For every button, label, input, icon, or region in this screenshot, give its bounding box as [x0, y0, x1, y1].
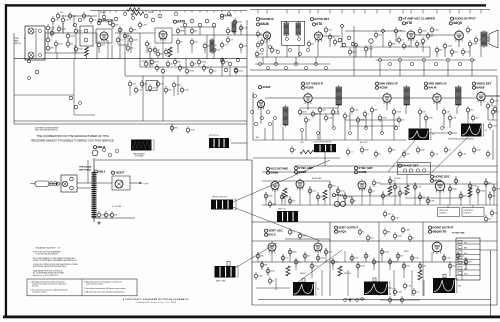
wire: [455, 176, 457, 185]
svg-text:470K: 470K: [428, 118, 433, 120]
wire: [199, 27, 201, 35]
wire: [325, 248, 327, 262]
svg-text:.1: .1: [458, 181, 460, 183]
fine tuning parts: [220, 58, 240, 72]
resistor Rif5: [388, 146, 395, 154]
svg-text:.0033: .0033: [396, 112, 401, 114]
wire: [286, 10, 288, 14]
svg-text:.0047: .0047: [270, 271, 275, 273]
b plus dropping parts: [378, 58, 473, 65]
wire: [162, 39, 164, 59]
waveform photo W2: [461, 124, 487, 137]
wire: [341, 10, 343, 14]
wire: [351, 254, 353, 262]
capacitor Ce20: [234, 67, 243, 75]
svg-text:47: 47: [159, 68, 161, 70]
svg-text:100K: 100K: [397, 292, 402, 294]
svg-text:.0047: .0047: [397, 236, 402, 238]
svg-text:6AU6: 6AU6: [260, 22, 269, 26]
resistor Rvx4: [366, 234, 373, 242]
rf amplifier tube V1: [100, 31, 108, 43]
capacitor Ce11: [145, 40, 151, 48]
svg-text:220: 220: [452, 266, 455, 268]
capacitor C26: [461, 48, 470, 56]
svg-text:.01: .01: [292, 232, 295, 234]
picture tube base rows: [456, 241, 480, 276]
wire: [184, 11, 186, 13]
wire: [371, 112, 373, 140]
alternate tuner line 1: [14, 120, 247, 122]
svg-text:470K: 470K: [61, 29, 66, 31]
tube V10 label 4CB6: [375, 86, 387, 90]
svg-text:3.6: 3.6: [432, 134, 434, 136]
wire if chain 7: [461, 97, 477, 99]
svg-text:47: 47: [272, 281, 274, 283]
wire: [422, 43, 424, 52]
wire: [411, 270, 413, 296]
svg-text:2.2M: 2.2M: [347, 197, 352, 199]
wire: [492, 114, 494, 120]
capacitor Cif8: [430, 150, 439, 158]
svg-text:8.2K: 8.2K: [243, 46, 248, 48]
svg-text:470K: 470K: [238, 71, 243, 73]
if bypass capacitor C41: [378, 114, 387, 122]
sync band capacitor C83: [476, 187, 485, 195]
bottom small parts: [344, 298, 364, 302]
svg-text:6T8: 6T8: [316, 22, 322, 26]
wire: [370, 43, 372, 57]
wire: [422, 10, 424, 14]
wire vert vertical x379: [378, 222, 380, 296]
svg-text:47: 47: [294, 150, 296, 152]
wire: [274, 190, 276, 205]
wire: [51, 30, 53, 36]
wire: [449, 184, 451, 205]
wire if chain 3: [341, 97, 383, 99]
wire: [329, 39, 331, 47]
capacitor Cvb2: [403, 282, 412, 290]
capacitor C6: [68, 12, 77, 20]
wire: [118, 44, 128, 46]
capacitor Cvo1: [490, 97, 499, 105]
svg-text:DC REST: DC REST: [394, 178, 401, 180]
wire: [419, 262, 421, 270]
wire: [213, 11, 215, 13]
svg-text:SER STRING: SER STRING: [79, 169, 92, 171]
svg-text:THE COOPERATION OF THE MANUFAC: THE COOPERATION OF THE MANUFACTURER OF T…: [36, 134, 109, 138]
wire: [317, 192, 319, 205]
wire: [129, 87, 131, 96]
vert band capacitor C106: [372, 258, 380, 266]
if bypass capacitor C39: [363, 110, 369, 118]
wire: [317, 254, 319, 262]
horiz output label: [428, 226, 453, 230]
wire: [234, 11, 236, 13]
vert band capacitor C108: [388, 258, 397, 266]
wire vert horiz y239: [285, 238, 330, 240]
svg-text:WHT: WHT: [464, 274, 467, 276]
resistor Re9: [190, 38, 198, 46]
svg-text:470K: 470K: [268, 196, 273, 198]
resistor Re14: [221, 58, 229, 66]
tuner extra parts: [123, 12, 230, 19]
svg-text:TO PIX: TO PIX: [143, 184, 149, 186]
first video if amplifier V8: [257, 99, 264, 110]
agc keying tube V14: [271, 180, 279, 192]
capacitor Cif2: [346, 148, 353, 156]
wire: [96, 33, 98, 59]
wire: [73, 59, 75, 115]
svg-text:680: 680: [458, 285, 461, 287]
wire: [469, 181, 471, 205]
svg-text:8.2K: 8.2K: [430, 201, 435, 203]
pilot lamp 1: [62, 181, 67, 186]
resistor Rvb1: [393, 288, 402, 296]
wire: [439, 191, 441, 205]
svg-text:© Howard W. Sams & Co., Inc.: © Howard W. Sams & Co., Inc. 1954: [136, 301, 177, 304]
wire: [107, 40, 109, 59]
vert band capacitor C111: [410, 254, 419, 262]
svg-text:BLU: BLU: [464, 253, 467, 255]
svg-text:620: 620: [488, 183, 491, 185]
svg-text:CONTROL: CONTROL: [439, 213, 447, 215]
waveform photo W3: [293, 282, 319, 296]
svg-text:.047: .047: [264, 42, 268, 44]
wire: [145, 11, 147, 13]
svg-text:.01: .01: [170, 64, 173, 66]
capacitor Ce9: [129, 26, 137, 34]
svg-text:▼BALANCED 300Ω INPUT ·· 27 ··: ▼BALANCED 300Ω INPUT ·· 27 ··: [35, 246, 62, 249]
wire: [324, 200, 326, 205]
svg-text:220: 220: [470, 110, 473, 112]
svg-text:.047: .047: [65, 20, 69, 22]
wire: [271, 251, 273, 262]
wire: [480, 102, 482, 106]
wire: [191, 11, 193, 13]
yoke bracket: [235, 198, 237, 200]
svg-text:ORN: ORN: [464, 269, 467, 271]
svg-text:.02: .02: [347, 116, 350, 118]
wire: [332, 258, 334, 270]
svg-text:.1: .1: [425, 41, 427, 43]
wire: [487, 108, 489, 120]
wire: [52, 23, 54, 30]
sync band capacitor C75: [398, 189, 407, 197]
svg-text:.001: .001: [475, 118, 479, 120]
svg-text:4 X 1.5 MEG: 4 X 1.5 MEG: [112, 206, 122, 208]
svg-text:AF AMP AGC CLAMPER: AF AMP AGC CLAMPER: [403, 17, 435, 21]
osc section parts: [144, 14, 162, 22]
svg-text:.005: .005: [397, 187, 401, 189]
wire: [357, 262, 359, 278]
svg-text:HEIGHT: HEIGHT: [300, 273, 306, 275]
svg-text:.0033: .0033: [480, 191, 485, 193]
svg-text:USED IN SOME VERSIONS 13: USED IN SOME VERSIONS 13: [35, 130, 58, 132]
wire: [177, 45, 179, 53]
wire: [399, 62, 401, 76]
mixer-osc tube V2: [159, 30, 167, 42]
svg-text:330: 330: [194, 31, 197, 33]
svg-text:.01: .01: [260, 45, 263, 47]
wire: [213, 27, 215, 59]
svg-text:8.2K: 8.2K: [354, 258, 359, 260]
svg-text:270K: 270K: [472, 44, 477, 46]
svg-text:100K: 100K: [237, 22, 242, 24]
sync band capacitor C78: [426, 197, 435, 205]
capacitor C17: [255, 50, 264, 58]
wire: [231, 142, 247, 144]
resistor Rif11: [472, 146, 481, 154]
resistor Rsd: [415, 40, 424, 48]
sync band capacitor C80: [454, 177, 460, 185]
wire: [458, 10, 460, 14]
svg-text:560K: 560K: [364, 150, 369, 152]
svg-text:6T8: 6T8: [406, 21, 412, 25]
wire: [344, 118, 346, 140]
svg-text:330: 330: [370, 238, 373, 240]
if transformer L5: [336, 85, 342, 107]
resistor Rtb: [212, 46, 221, 54]
wire: [402, 10, 404, 14]
wire: [162, 76, 164, 121]
sync band capacitor C61: [268, 200, 276, 208]
svg-text:.02: .02: [416, 292, 419, 294]
svg-text:100K: 100K: [320, 258, 325, 260]
waveform marker W5: [443, 274, 446, 278]
svg-text:HORIZ HOLD: HORIZ HOLD: [464, 210, 475, 212]
wire: [206, 11, 208, 13]
resistor Rvb3: [400, 296, 404, 304]
mixer-osc box: [80, 26, 93, 46]
waveform marker W3: [302, 279, 305, 283]
capacitor Ce2: [46, 36, 52, 44]
vert band capacitor C93: [254, 272, 263, 280]
capacitor Ce16: [239, 42, 248, 50]
wire: [355, 56, 430, 58]
svg-text:.02: .02: [422, 197, 425, 199]
resistor Rta: [233, 18, 242, 26]
wire: [87, 160, 89, 183]
resistor Rf2: [148, 84, 156, 92]
wire: [496, 76, 498, 166]
resistor R19: [338, 266, 342, 276]
wire right edge x490: [490, 250, 492, 316]
sync band capacitor C69: [350, 197, 356, 205]
svg-text:4CB6: 4CB6: [305, 86, 313, 90]
capacitor C8: [116, 36, 123, 44]
wire: [317, 135, 319, 140]
wire: [436, 102, 438, 110]
wire: [175, 11, 177, 13]
sync sep label: [354, 166, 372, 170]
svg-text:.047: .047: [272, 204, 276, 206]
wire: [458, 40, 460, 47]
if bypass capacitor C48: [466, 106, 473, 114]
if bypass capacitor C40: [370, 106, 378, 114]
svg-text:max 500 k.o. p 1/2 w TUBE 115: max 500 k.o. p 1/2 w TUBE 115 V: [33, 275, 59, 277]
on-off switch: [57, 182, 60, 185]
hv rect label 6BL4: [94, 169, 105, 173]
wire: [140, 66, 247, 68]
resistor Rvx3: [298, 232, 307, 240]
capacitor Cf3: [156, 80, 164, 88]
svg-text:VERT OUT: VERT OUT: [278, 209, 286, 211]
wire hhold stub: [472, 205, 474, 208]
wire: [429, 47, 431, 57]
wire: [369, 186, 371, 205]
tube V2 label 6AT8: [173, 20, 185, 24]
resistor R20: [418, 270, 422, 280]
phase det label: [398, 164, 418, 168]
wire: [252, 92, 254, 140]
wire: [103, 11, 105, 15]
svg-text:560K: 560K: [302, 236, 307, 238]
damper parts: [92, 148, 119, 156]
svg-text:47: 47: [260, 34, 262, 36]
wire: [62, 23, 64, 33]
wire if out: [485, 95, 500, 97]
wire: [376, 10, 378, 14]
svg-text:TO-58 OR UHF-ALLOCATED: TO-58 OR UHF-ALLOCATED: [36, 253, 59, 256]
tube V4 label 6AU6: [256, 22, 268, 26]
wire heater bus right: [250, 69, 497, 71]
svg-text:220: 220: [292, 201, 295, 203]
wire: [365, 252, 367, 262]
svg-text:6AL5: 6AL5: [268, 233, 276, 237]
resistor Re3: [74, 45, 83, 53]
svg-text:6BQ6GTB: 6BQ6GTB: [432, 230, 447, 234]
vert band capacitor C96: [288, 248, 297, 256]
svg-text:2.2M: 2.2M: [184, 90, 189, 92]
wire: [425, 120, 427, 128]
svg-text:DEFL YOKE: DEFL YOKE: [216, 281, 226, 283]
wire: [460, 191, 462, 205]
osc coil L9: [232, 20, 236, 34]
svg-text:620: 620: [400, 256, 403, 258]
wire: [267, 267, 269, 276]
wire: [92, 217, 135, 219]
resistor R11: [426, 32, 434, 40]
sync band capacitor C64: [308, 187, 316, 195]
svg-text:8.2K: 8.2K: [462, 154, 467, 156]
svg-text:120K: 120K: [360, 266, 365, 268]
wire: [124, 33, 126, 76]
wire: [364, 10, 366, 14]
wire: [480, 10, 482, 14]
svg-text:560K: 560K: [259, 54, 264, 56]
resistor Rvx2: [408, 234, 414, 242]
wire: [289, 196, 291, 205]
vert band capacitor C105: [364, 252, 370, 260]
if transformer L6: [404, 85, 410, 107]
capacitor Cif4: [374, 150, 381, 158]
speaker SP1: [487, 30, 498, 48]
svg-text:.02: .02: [448, 150, 451, 152]
wire if b plus: [253, 157, 340, 159]
3rd video if label: [424, 82, 447, 86]
svg-text:330: 330: [392, 150, 395, 152]
wire sync long y184: [380, 183, 497, 185]
svg-text:.01: .01: [372, 191, 375, 193]
capacitor C14: [178, 64, 187, 72]
wire: [309, 186, 311, 205]
border top bar: [5, 4, 486, 6]
svg-text:6AN8: 6AN8: [270, 171, 278, 175]
tuner front-end box: [25, 26, 45, 60]
wire: [260, 108, 262, 124]
if bypass capacitor C34: [324, 114, 333, 122]
waveform marker W4: [373, 278, 376, 282]
wire: [355, 45, 357, 57]
svg-text:AUDIO OUTPUT: AUDIO OUTPUT: [454, 17, 476, 21]
svg-text:.001: .001: [101, 45, 105, 47]
zigzag bracket: [153, 139, 155, 141]
wire if chain 6: [441, 97, 455, 99]
audio output V7: [455, 30, 464, 42]
rf amp grid parts: [73, 18, 81, 26]
wire: [62, 23, 64, 33]
if input parts: [250, 94, 276, 125]
wire: [393, 114, 395, 140]
wire: [410, 10, 412, 14]
wire: [307, 102, 309, 110]
if bypass capacitor C33: [318, 106, 326, 114]
wire: [159, 11, 161, 13]
wire: [393, 270, 395, 296]
svg-text:BRN: BRN: [464, 263, 467, 265]
wire vert bus 2: [252, 240, 497, 242]
capacitor C54: [110, 211, 118, 219]
tube V12 label 6AB8: [472, 86, 484, 90]
svg-text:SOUND IF: SOUND IF: [260, 17, 274, 21]
capacitor Cvx1: [383, 228, 391, 236]
capacitor Cvx4: [358, 228, 365, 236]
svg-text:.1: .1: [50, 40, 52, 42]
svg-text:4.7K: 4.7K: [407, 286, 412, 288]
svg-text:ELECTRICAL DESIGN FROM RIGHT S: ELECTRICAL DESIGN FROM RIGHT SIDE.: [33, 265, 67, 268]
sync band capacitor C72: [381, 192, 388, 200]
wire: [337, 186, 339, 205]
wire: [329, 181, 331, 205]
svg-text:560K: 560K: [180, 31, 185, 33]
resistor R8: [364, 45, 373, 53]
coil L3: [84, 38, 88, 42]
svg-text:VERT HOLD: VERT HOLD: [439, 210, 449, 212]
sync band capacitor C73: [388, 177, 395, 185]
flyback transformer T3: [92, 172, 97, 217]
capacitor Cvx2: [401, 226, 410, 234]
capacitor Ce15: [226, 36, 233, 44]
vert band capacitor C99: [310, 262, 318, 270]
wire: [376, 59, 476, 61]
border left bar: [5, 4, 7, 317]
wire: [204, 49, 206, 53]
resistor Rsa: [260, 38, 268, 46]
capacitor Csx1: [383, 210, 391, 218]
vert box inner bottom: [258, 299, 490, 301]
fringe box: [146, 81, 157, 91]
wire: [264, 128, 266, 140]
svg-text:8.2K: 8.2K: [406, 46, 411, 48]
tube V20 label 6BQ6GTB: [428, 230, 447, 234]
svg-text:46: 46: [317, 289, 319, 291]
svg-text:VERT LIN: VERT LIN: [344, 273, 351, 275]
svg-text:.001: .001: [152, 88, 156, 90]
waveform photo W5: [433, 278, 461, 293]
sync band capacitor C70: [368, 187, 375, 195]
test point TP1: [340, 24, 344, 28]
waveform photo W4: [364, 282, 393, 296]
